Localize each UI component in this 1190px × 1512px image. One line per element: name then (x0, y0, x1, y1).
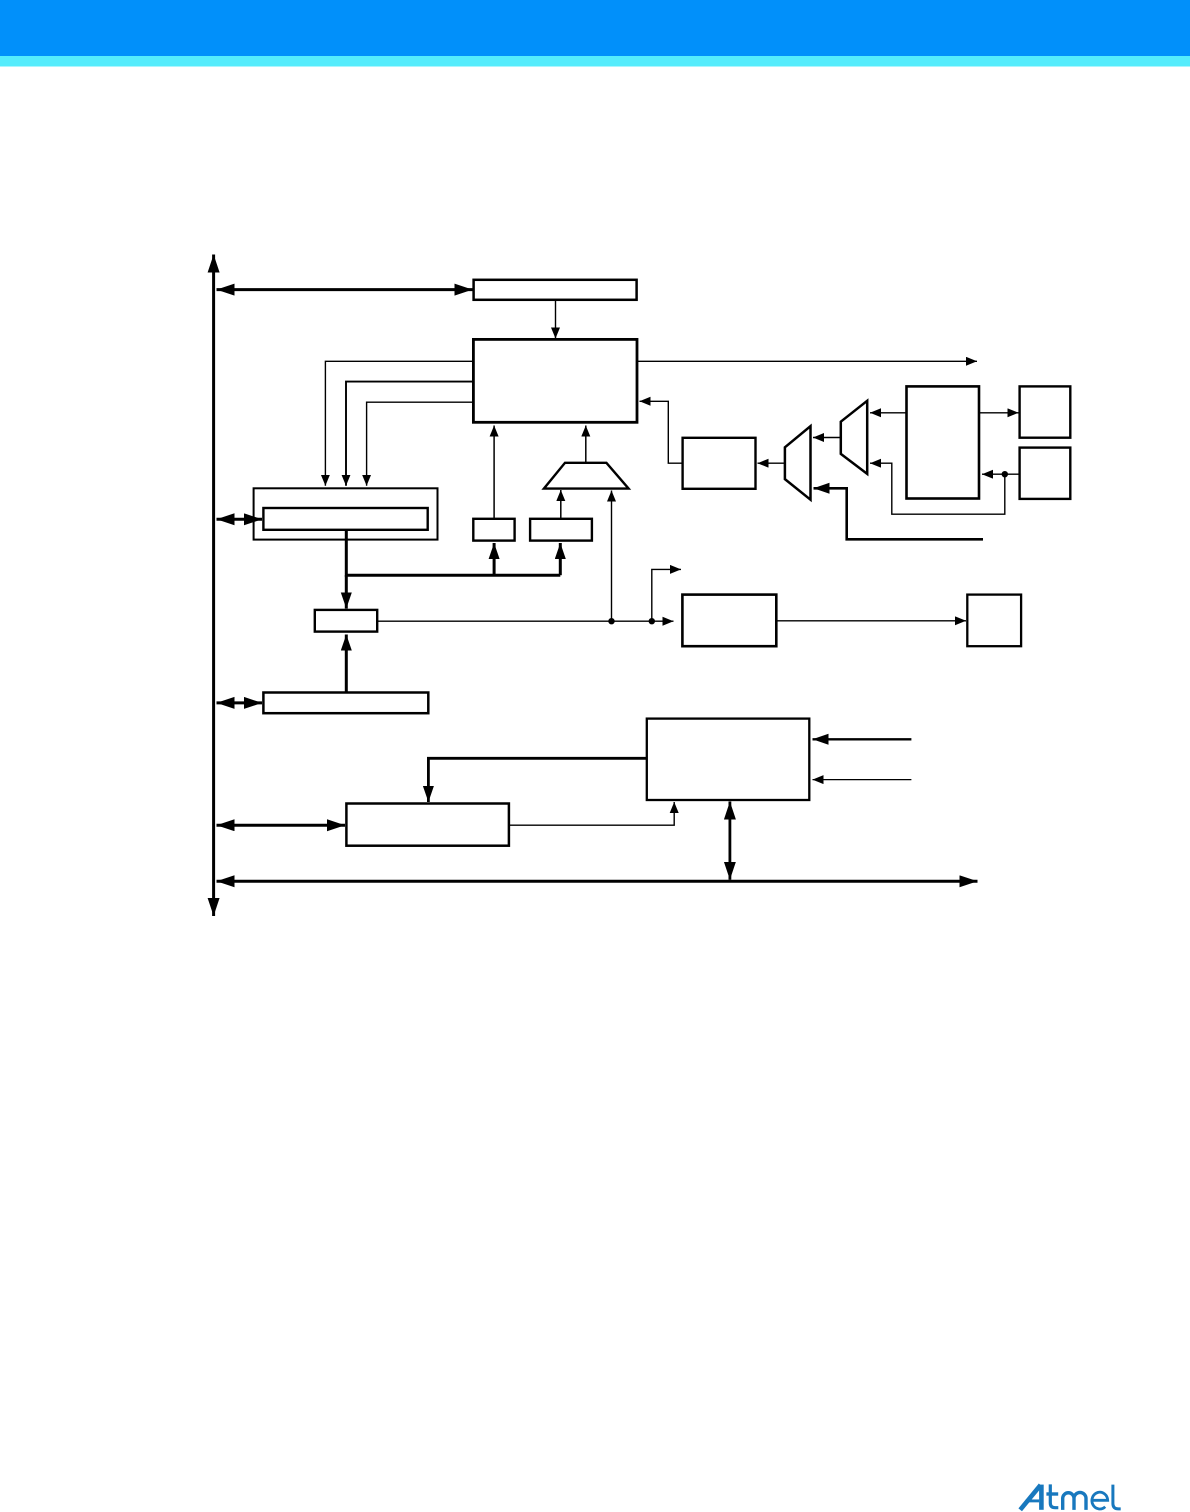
clock select box C (683, 438, 756, 489)
wire: compare match to waveform generator (377, 620, 673, 622)
compare match box (315, 610, 377, 632)
wire: control line 3 (direction) (367, 402, 474, 486)
wire: bus to TCNTn (double arrow) (217, 518, 263, 521)
wire: clkASY input to synchronization unit (813, 779, 912, 781)
wire: status flags to synchronization unit (509, 802, 674, 825)
wire: prescaler to mux M2 (870, 412, 907, 414)
TOSC1 pin box (1020, 386, 1071, 437)
timer/counter TCNTn outer box (254, 488, 438, 539)
waveform generation box (682, 595, 776, 647)
wire: TCNTn value bus down with tee (346, 530, 560, 575)
mux M2 (right clock mux) (841, 401, 867, 474)
mux M3 (bottom trapezoid) (544, 463, 629, 489)
status flags box (346, 804, 509, 846)
wire: value down to compare unit (345, 575, 348, 608)
wire: compare match up to mux M3 (611, 491, 613, 622)
wire: clock select to control logic (640, 401, 683, 463)
wire: clkIO input to synchronization unit (813, 738, 912, 740)
wire: mux M1 to clock select (758, 462, 785, 464)
comparator box E2 (530, 519, 592, 541)
wire: value to comparator E1 (493, 543, 496, 575)
OCnx pin box (967, 595, 1021, 647)
wire: value to comparator E2 (559, 543, 562, 575)
header blue banner (0, 0, 1190, 56)
register box ASSRn (263, 693, 428, 714)
wire: waveform generation to OCnx pin (776, 620, 966, 622)
node: junction to mux (608, 618, 614, 624)
wire: mux M3 to control logic (585, 426, 587, 463)
synchronization unit box (647, 719, 810, 800)
wire: control line 1 (count) (325, 361, 473, 486)
wire: control line 2 (clear) (346, 382, 473, 486)
wire: synchronization unit to async bus (double arrow) (729, 802, 732, 880)
wire: bus to status flags (double arrow) (217, 824, 346, 827)
wire: TOVn interrupt request arrow (638, 360, 977, 362)
header cyan stripe (0, 56, 1190, 67)
control logic box U1 (473, 339, 637, 422)
Atmel logo (1020, 1484, 1120, 1510)
node: junction to interrupt (649, 618, 655, 624)
register box TCCRnx (474, 280, 637, 300)
DATA BUS vertical line (212, 255, 215, 917)
prescaler box (907, 386, 980, 498)
wire: asynchronous status bus (double arrow) (217, 880, 978, 883)
wire: synchronization unit to status flags (428, 758, 646, 802)
wire: OCnx interrupt request elbow (652, 569, 681, 621)
wire: bus to ASSRn (double arrow) (217, 701, 263, 704)
wire: TOSC2 junction down to mux M2 (870, 463, 1005, 514)
wire: bus to TCCR register (double arrow) (217, 288, 473, 291)
comparator box E1 (473, 519, 514, 541)
wire: E1 up to control logic (493, 426, 495, 519)
timer/counter TCNTn inner register (263, 508, 427, 530)
wire: TCCRnx to control logic (555, 301, 557, 339)
wire: TOSC2 to prescaler input (982, 473, 1020, 475)
node: TOSC2 junction (1002, 471, 1008, 477)
wire: mux M2 to mux M1 (813, 437, 841, 439)
wire: prescaler to TOSC1 (979, 412, 1019, 414)
wire: OCRnx up to compare unit (345, 635, 348, 693)
wire: clkIO to mux M1 (814, 488, 984, 539)
wire: E2 up to mux M3 (560, 490, 562, 519)
mux M1 (left clock mux) (785, 426, 811, 500)
TOSC2 pin box (1020, 448, 1071, 499)
